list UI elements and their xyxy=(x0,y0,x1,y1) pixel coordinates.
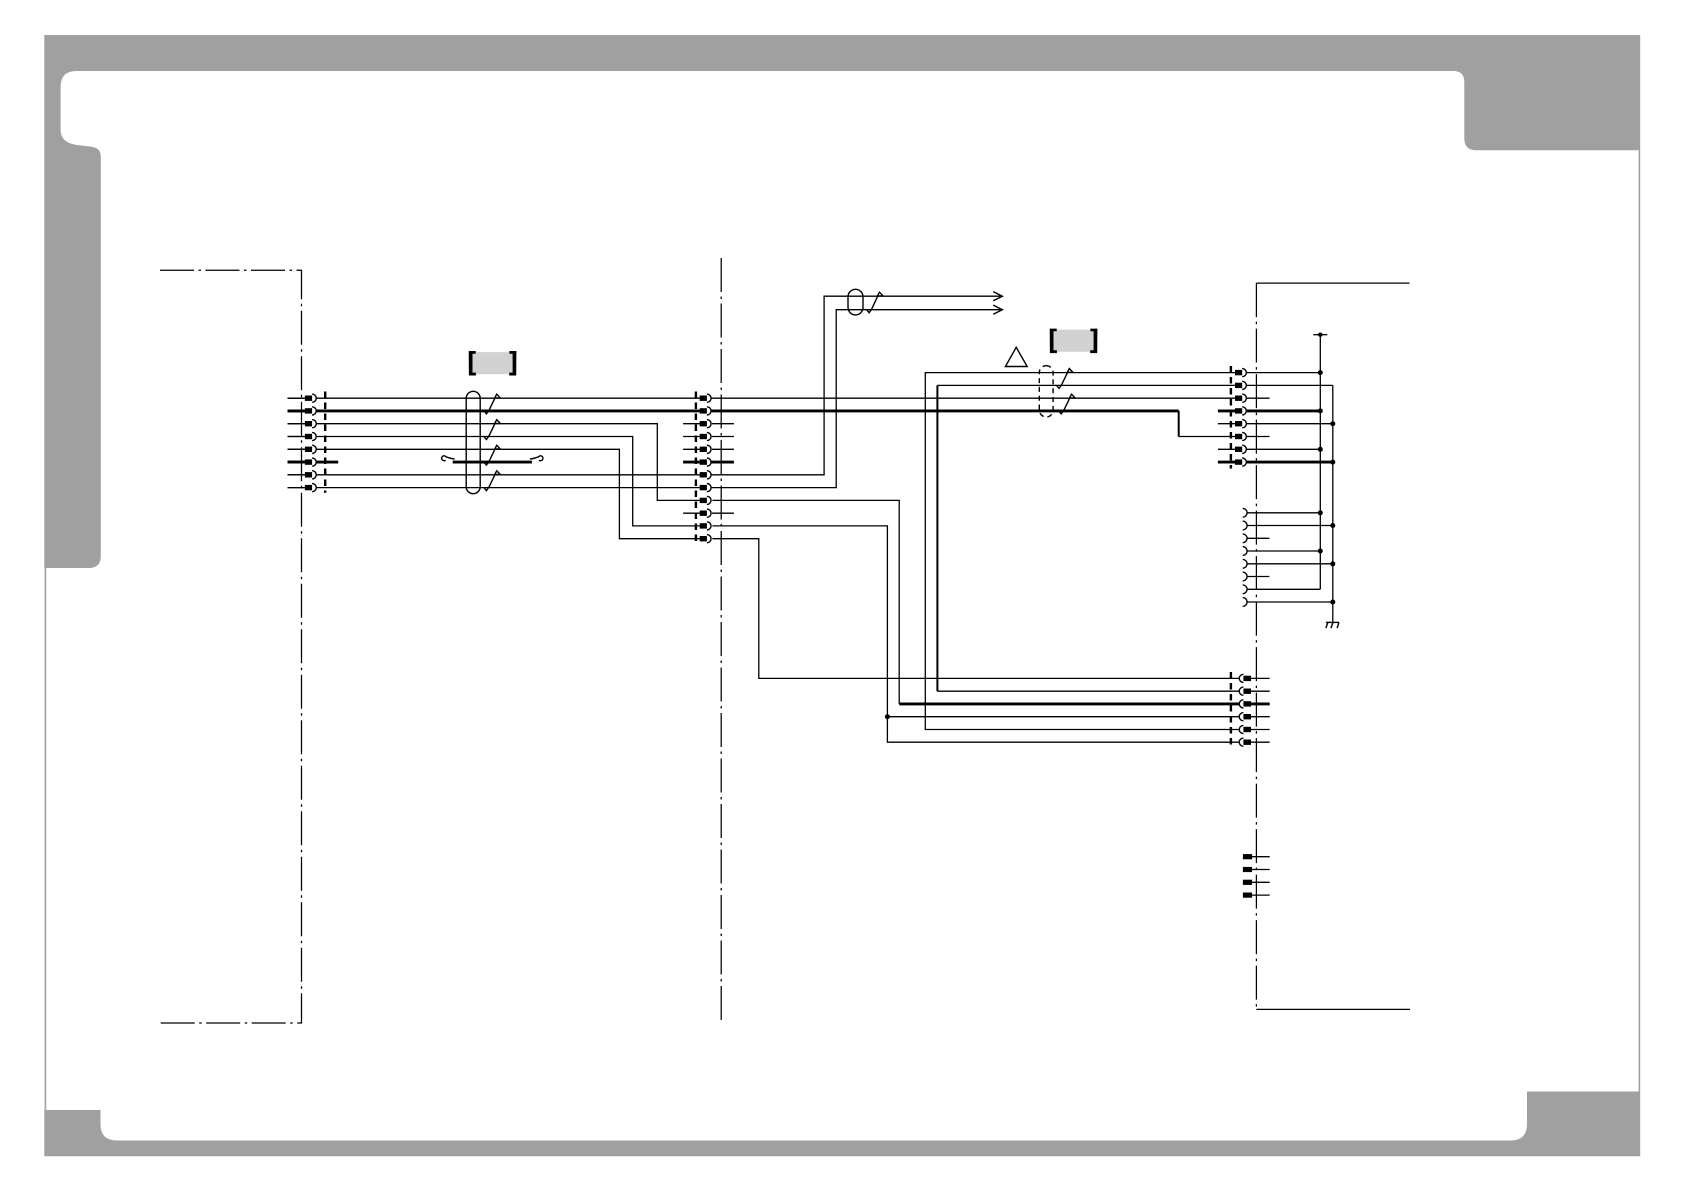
left connector CN-L (8 pins) xyxy=(288,392,326,493)
strain hook left on W6 xyxy=(442,456,455,461)
cable tie mark 4 on main harness xyxy=(484,471,497,491)
wire W3: left CN pin3 jog down to middle CN pin9 xyxy=(288,424,700,501)
label box 2 (blank gray callout with brackets) xyxy=(1050,329,1098,354)
left chassis box (dash-dot outline) xyxy=(160,270,302,1023)
wire W6 (thick) stub at left CN pin6 xyxy=(288,461,339,464)
arrowhead 2 xyxy=(993,305,1002,314)
right chassis box bottom edge xyxy=(1256,1008,1410,1010)
junction dot on pin11 branch xyxy=(885,714,890,719)
wire W5: left CN pin5 jog down to middle CN pin12 xyxy=(288,449,700,538)
right chassis box left edge (dash-dot) xyxy=(1255,283,1257,1009)
middle CN pin9 wire down to lower-right CN pin3 (thick run) xyxy=(712,500,899,704)
cable clamp (stadium) on main harness xyxy=(466,391,480,493)
bus 2 to chassis ground xyxy=(1332,385,1334,622)
right CN pin stub wires to buses xyxy=(1247,372,1321,374)
wire W1: left CN pin1 to right CN pin3 xyxy=(288,397,1236,399)
bus junction dots xyxy=(1318,370,1336,604)
arrowhead 1 xyxy=(993,292,1002,301)
cable tie mark 3 on main harness xyxy=(484,445,497,465)
wire W4: left CN pin4 jog down to middle CN pin11 xyxy=(288,437,700,526)
bottom-right terminal block (4 pins) xyxy=(1243,854,1270,898)
small cable clamp on arrow pair xyxy=(848,289,863,315)
cable tie mark 2 on main harness xyxy=(484,420,497,440)
wire W8: left CN pin8 through middle CN pin8, up to arrow 2 xyxy=(288,310,1001,488)
cable tie mark on arrow pair xyxy=(867,292,880,313)
middle section divider (dash-dot) xyxy=(720,258,722,1022)
lower-right connector CN-R2 (6 pins, sockets) xyxy=(1231,672,1270,749)
coil pin group (8 windings) xyxy=(1243,508,1333,606)
page border left thin rule xyxy=(45,568,47,1110)
warning triangle symbol xyxy=(1005,347,1027,366)
page border bottom strip with end blocks xyxy=(44,1092,1640,1157)
middle inline connector CN-M (12 pins) xyxy=(683,392,734,546)
link right CN pin2 to lower-right CN pin2 (thick vertical) xyxy=(937,384,1235,386)
page border right thin rule xyxy=(1639,150,1641,1091)
cable tie mark 1 on main harness xyxy=(484,394,497,414)
label box 1 (blank gray callout with brackets) xyxy=(469,351,517,376)
cable tie mark B at dashed clamp xyxy=(1059,394,1072,414)
cable tie mark A at dashed clamp xyxy=(1057,369,1070,389)
chassis ground symbol xyxy=(1326,622,1339,628)
middle CN pin12 wire down to lower-right CN pin1 xyxy=(712,539,1239,679)
bus 1 with top terminal xyxy=(1319,335,1321,590)
page border top bar, top-right block and left chapter tab xyxy=(44,35,1640,568)
right connector CN-R1 (8 pins) xyxy=(1218,366,1246,469)
wire W7: left CN pin7 through middle CN pin7, up to arrow 1 xyxy=(288,296,1001,475)
wire W6 (thick) middle segment between strain hooks xyxy=(453,461,532,464)
strain hook right on W6 xyxy=(530,456,543,461)
link right CN pin1 to lower-right CN pin5 xyxy=(925,373,1239,730)
dashed cable clamp near right connector xyxy=(1039,366,1053,417)
right chassis box top edge xyxy=(1256,282,1409,284)
middle CN pin11 wire down, branches to lower-right CN pins 4 and 6 xyxy=(712,526,1239,742)
wire W2 (thick): left CN pin2, jogs down to right CN pin6 xyxy=(288,409,1179,412)
